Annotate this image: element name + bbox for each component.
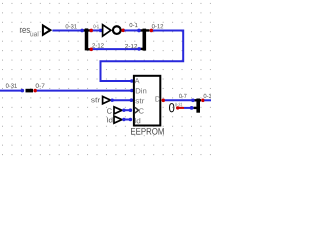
input pin res triangle — [43, 25, 51, 34]
wire C to EEPROM — [123, 109, 131, 111]
constant 0 — [169, 103, 174, 112]
splitter S1 — [84, 28, 91, 50]
node ld buffer output — [122, 118, 125, 121]
EEPROM pin label A — [135, 78, 140, 83]
input pin str triangle — [103, 97, 111, 104]
label 0-1 S2 — [130, 23, 138, 27]
node S3 output — [201, 99, 205, 103]
input pin res label — [20, 28, 30, 33]
node EEPROM A port — [130, 79, 134, 83]
wire str to EEPROM — [112, 99, 130, 101]
node S4 output — [33, 89, 37, 93]
EEPROM name label — [131, 128, 164, 135]
EEPROM body — [134, 76, 160, 126]
splitter S3 — [193, 99, 201, 113]
node C buffer output — [122, 109, 125, 112]
NOT gate U1 bubble — [113, 26, 121, 34]
input pin str label — [91, 98, 100, 103]
EEPROM pin label Din — [136, 88, 146, 93]
EEPROM pin label ld — [135, 118, 140, 123]
input pin C triangle — [114, 107, 122, 114]
node S4 input — [21, 89, 25, 93]
EEPROM pin label D — [156, 96, 160, 101]
wire NOT gate to splitter S2 — [124, 29, 137, 31]
label 0-12 — [152, 24, 163, 28]
label 0-1 S1 — [94, 25, 99, 29]
input pin ld label — [107, 117, 112, 122]
label 2-12 S1 — [92, 43, 103, 47]
label 0-31 Din — [6, 84, 17, 88]
node splitter S1 out 0-1 — [90, 29, 94, 33]
node S2 input 2-12 — [137, 47, 141, 51]
wire D to splitter S3 — [165, 99, 192, 101]
node splitter S1 input — [80, 29, 84, 33]
label 0-7 S4 — [36, 84, 45, 88]
node constant output — [176, 106, 179, 109]
node NOT gate input — [99, 29, 102, 32]
wire 2-12 S1 to S2 — [93, 48, 138, 50]
NOT gate U1 triangle — [103, 25, 111, 36]
node EEPROM ld port — [129, 118, 133, 122]
wire to S3 bottom input — [184, 107, 194, 109]
node str buffer output — [111, 99, 114, 102]
EEPROM pin label C — [139, 108, 144, 113]
node S2 output 0-12 — [150, 29, 154, 33]
node S3 input 0-7 — [191, 99, 195, 103]
wire ld to EEPROM — [123, 119, 131, 121]
label 8-31 — [175, 103, 182, 107]
node EEPROM D output — [162, 99, 166, 103]
wire Din from left edge — [0, 90, 21, 92]
wire constant to S3 error segment — [178, 107, 184, 109]
splitter S2 — [139, 29, 150, 51]
label 0-31 — [66, 24, 77, 28]
splitter S4 inline — [26, 89, 34, 93]
wire res to splitter S1 — [52, 29, 82, 31]
wire S1 to NOT gate — [93, 29, 100, 31]
wire S2 output to EEPROM A — [101, 30, 184, 81]
node NOT gate output — [121, 29, 125, 33]
EEPROM pin label str — [135, 99, 144, 104]
wire S4 to EEPROM Din — [37, 90, 131, 92]
node S3 input 8-31 — [190, 106, 194, 110]
input pin C label — [107, 108, 112, 113]
node EEPROM Din port — [130, 89, 134, 93]
input pin ld triangle — [114, 116, 122, 123]
label 0-7 D — [179, 94, 186, 98]
node splitter S1 out 2-12 — [90, 48, 94, 52]
wire S3 output to right edge — [204, 99, 211, 101]
node EEPROM C port — [129, 108, 133, 112]
label 2-12 S2 — [125, 44, 137, 48]
label 0-31 right clipped — [204, 94, 215, 98]
EEPROM clock wedge — [135, 107, 139, 113]
node S2 input 0-1 — [137, 29, 141, 33]
node EEPROM str port — [130, 98, 134, 102]
